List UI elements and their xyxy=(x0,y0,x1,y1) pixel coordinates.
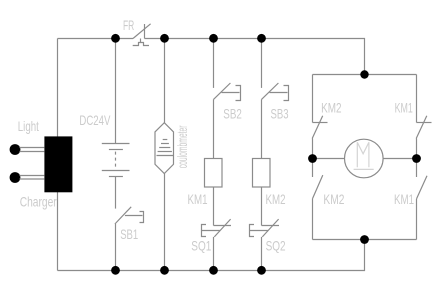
wire: bottom bus xyxy=(58,240,365,271)
svg-text:DC24V: DC24V xyxy=(79,112,110,128)
wire: battery branch top lead xyxy=(115,39,117,144)
wire: H-bridge bottom bar xyxy=(313,239,417,241)
junction: top bus / battery branch xyxy=(111,34,120,43)
limit switch SQ2 (NC) xyxy=(250,219,280,237)
wire: H-bridge top bar xyxy=(313,74,417,76)
svg-text:coulombmeter: coulombmeter xyxy=(174,125,190,168)
wire: SB1 to bottom bus xyxy=(115,224,117,271)
wire: SB2 to coil KM1 xyxy=(213,99,215,158)
junction: top bus / SB2 branch xyxy=(209,34,218,43)
svg-text:KM1: KM1 xyxy=(394,191,414,207)
wire: SB3 to coil KM2 xyxy=(261,99,263,158)
junction: bottom bus / SB1 branch xyxy=(111,266,120,275)
svg-text:KM1: KM1 xyxy=(395,99,413,115)
contact KM1 (H-bridge top-right, NC) xyxy=(416,75,431,159)
pushbutton SB3 (NO) xyxy=(262,83,289,101)
plug terminal: light xyxy=(10,144,21,155)
junction: H-bridge bottom center xyxy=(360,235,369,244)
svg-text:KM2: KM2 xyxy=(266,191,286,207)
wire: SQ2 to bottom bus xyxy=(261,237,263,271)
svg-text:Light: Light xyxy=(18,118,39,134)
wire: SQ1 to bottom bus xyxy=(213,237,215,271)
thermal relay contact FR (NC) xyxy=(133,24,151,46)
svg-text:KM1: KM1 xyxy=(188,191,208,207)
svg-text:SB2: SB2 xyxy=(223,106,242,122)
wire: coulombmeter branch top lead xyxy=(164,39,166,123)
pushbutton SB2 (NO) xyxy=(214,83,241,101)
wire: battery to SB1 xyxy=(115,177,117,209)
wire: light lead pair xyxy=(20,148,45,152)
contact KM2 (H-bridge bottom-left, NO) xyxy=(312,159,322,240)
junction: bottom bus / coulombmeter branch xyxy=(160,266,169,275)
svg-text:Charger: Charger xyxy=(20,194,57,210)
wire: coulombmeter to bottom bus xyxy=(164,174,166,271)
svg-text:SB3: SB3 xyxy=(271,106,289,122)
junction: motor row left xyxy=(308,154,317,163)
junction: top bus / coulombmeter branch xyxy=(160,34,169,43)
contact KM1 (H-bridge bottom-right, NO) xyxy=(417,159,428,240)
wire: motor row left xyxy=(313,158,345,160)
battery DC24V xyxy=(102,144,130,177)
coulombmeter xyxy=(155,123,174,174)
coil KM2 xyxy=(253,159,271,188)
plug terminal: charger xyxy=(10,172,21,183)
svg-text:KM2: KM2 xyxy=(321,99,342,115)
svg-text:SB1: SB1 xyxy=(120,226,138,242)
charger block xyxy=(44,136,72,192)
motor M xyxy=(345,139,384,178)
wire: left charger-loop branch xyxy=(57,39,59,271)
wire: SB3 branch top lead xyxy=(261,39,263,88)
wire: coil KM1 to SQ1 xyxy=(213,187,215,226)
wire: charger lead pair xyxy=(20,176,45,180)
wire: top bus left segment xyxy=(58,38,134,40)
junction: motor row right xyxy=(412,154,421,163)
pushbutton SB1 (NO) xyxy=(115,207,144,224)
junction: bottom bus / SQ1 branch xyxy=(209,266,218,275)
svg-text:SQ2: SQ2 xyxy=(266,238,286,254)
wire: top bus right segment to H-bridge xyxy=(145,39,365,75)
wire: motor row right xyxy=(383,158,416,160)
junction: H-bridge top center xyxy=(360,70,368,78)
svg-text:KM2: KM2 xyxy=(323,191,344,207)
coil KM1 xyxy=(205,159,223,188)
junction: top bus / SB3 branch xyxy=(257,34,266,43)
junction: bottom bus / SQ2 branch xyxy=(257,266,266,275)
contact KM2 (H-bridge top-left, NC) xyxy=(312,75,327,159)
limit switch SQ1 (NC) xyxy=(202,219,232,237)
svg-text:FR: FR xyxy=(123,17,134,33)
svg-text:SQ1: SQ1 xyxy=(191,238,211,254)
wire: SB2 branch top lead xyxy=(213,39,215,88)
wire: coil KM2 to SQ2 xyxy=(261,187,263,226)
